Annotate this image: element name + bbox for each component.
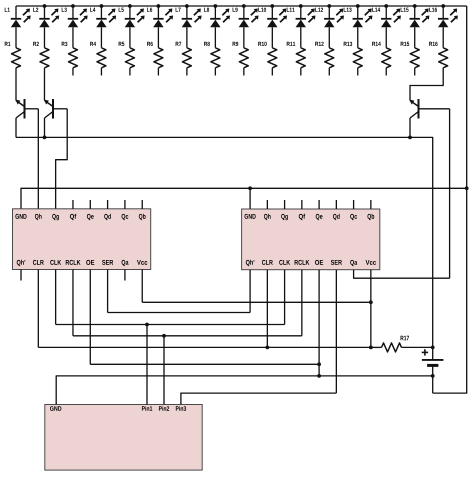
U1 pin label Qh xyxy=(35,214,42,220)
battery BT1 minus plate xyxy=(427,364,438,367)
U2 pin label CLR xyxy=(262,260,273,265)
U2 pin label Qe xyxy=(316,214,323,220)
U1 pin label CLK xyxy=(50,260,61,265)
label R11 xyxy=(287,42,296,46)
wire R10 lower stub xyxy=(271,68,273,76)
label L13 xyxy=(344,8,352,12)
wire: Q2 collector to rail xyxy=(44,118,46,137)
junction L11/rail xyxy=(299,4,303,8)
microcontroller U3 xyxy=(45,405,202,471)
LED L9 xyxy=(239,6,259,48)
junction Q2 collector xyxy=(43,136,47,140)
resistor R5 xyxy=(125,48,134,68)
wire: OE bus xyxy=(90,363,319,365)
U1 top stub Qe xyxy=(89,200,91,209)
wire: right-edge riser (rail to battery minus) xyxy=(433,6,467,393)
resistor R3 xyxy=(68,48,77,68)
U2 top stub Qf xyxy=(301,200,303,209)
wire: U2 Qh' down xyxy=(249,270,251,313)
wire: Pin3 to U2 SER xyxy=(181,393,336,404)
label R13 xyxy=(344,42,352,46)
label R1 xyxy=(5,42,11,46)
wire R14 lower stub xyxy=(385,68,387,76)
wire R9 lower stub xyxy=(243,68,245,76)
wire: U2 CLR down xyxy=(266,270,268,348)
U2 pin label Qh xyxy=(264,214,271,220)
label R17 xyxy=(401,336,409,341)
U3 pin label GND xyxy=(50,406,61,411)
shift register U2 xyxy=(242,209,380,270)
wire: R16 to Q3 emitter xyxy=(410,68,443,101)
wire: R17 right lead xyxy=(402,346,433,348)
junction Vcc bus / U2 Vcc riser xyxy=(369,300,373,304)
junction L14/rail xyxy=(384,4,388,8)
junction U2 GND pin / GND rail xyxy=(248,186,252,190)
junction R17 / battery plus riser xyxy=(431,346,435,350)
label R12 xyxy=(315,42,323,46)
label R7 xyxy=(176,42,182,46)
LED L3 xyxy=(68,6,88,48)
label R5 xyxy=(119,42,125,46)
wire R4 lower stub xyxy=(100,68,102,76)
resistor R4 xyxy=(97,48,106,68)
LED L6 xyxy=(153,6,173,48)
U2 pin label SER xyxy=(331,260,342,265)
wire: top cathode rail xyxy=(16,5,467,7)
LED L7 xyxy=(182,6,202,48)
U1 pin label GND xyxy=(15,214,26,219)
U2 pin label OE xyxy=(315,260,323,265)
LED L10 xyxy=(267,6,287,48)
U1 pin label SER xyxy=(102,260,113,265)
U2 pin label Qg xyxy=(281,214,288,220)
wire R12 lower stub xyxy=(328,68,330,76)
resistor R7 xyxy=(182,48,191,68)
label L9 xyxy=(233,8,238,12)
U1 pin label Qc xyxy=(122,214,129,220)
U2 pin label Qd xyxy=(333,214,340,220)
U1 top stub Qd xyxy=(107,200,109,209)
wire: RCLK bus xyxy=(73,335,302,337)
label R9 xyxy=(233,42,239,46)
junction L2/rail xyxy=(43,4,47,8)
U3 pin label Pin1 xyxy=(142,406,152,411)
U2 top stub Qg xyxy=(284,200,286,209)
LED L2 xyxy=(39,6,59,48)
U2 pin label Qc xyxy=(350,214,357,220)
label L7 xyxy=(176,8,181,12)
junction L8/rail xyxy=(213,4,217,8)
wire: U1 OE down xyxy=(89,270,91,365)
wire R15 lower stub xyxy=(414,68,416,76)
wire: U1 CLK down xyxy=(55,270,57,325)
junction GND bus / battery minus xyxy=(431,374,435,378)
wire: Pin1 riser xyxy=(146,325,148,405)
U1 pin label CLR xyxy=(33,260,44,265)
label L11 xyxy=(287,8,295,12)
junction L5/rail xyxy=(128,4,132,8)
resistor R12 xyxy=(325,48,334,68)
wire: Pin2 riser xyxy=(163,336,165,405)
resistor R13 xyxy=(353,48,362,68)
U2 top stub Qc xyxy=(353,200,355,209)
junction CLK bus / Pin1 xyxy=(145,323,149,327)
wire: collector rail xyxy=(16,137,433,360)
junction L12/rail xyxy=(327,4,331,8)
junction L16/rail xyxy=(441,4,445,8)
wire: GND bus (U3 GND to battery minus) xyxy=(56,376,433,405)
resistor R9 xyxy=(239,48,248,68)
wire: Q1 base to U1 Qh xyxy=(37,109,39,209)
resistor R11 xyxy=(296,48,305,68)
resistor R14 xyxy=(382,48,391,68)
wire: U2 OE down xyxy=(318,270,320,376)
U1 stub Qh' xyxy=(20,270,22,281)
label L10 xyxy=(258,8,266,12)
LED L15 xyxy=(410,6,430,48)
resistor R17 xyxy=(382,343,402,352)
LED L13 xyxy=(353,6,373,48)
U2 pin label CLK xyxy=(279,260,290,265)
LED L14 xyxy=(381,6,401,48)
label L6 xyxy=(147,8,152,12)
battery BT1 plus sign xyxy=(422,351,428,353)
U2 pin label Qa xyxy=(350,260,357,266)
label R8 xyxy=(204,42,210,46)
resistor R2 xyxy=(40,48,49,68)
wire: CLK bus xyxy=(56,324,285,326)
U2 pin label GND xyxy=(245,214,256,219)
label L16 xyxy=(429,8,437,12)
wire: Q1 collector to rail xyxy=(15,118,17,137)
LED L4 xyxy=(96,6,116,48)
wire: GND rail xyxy=(21,188,467,209)
resistor R8 xyxy=(211,48,220,68)
wire: U2 Qa to Q3 base xyxy=(354,270,450,279)
wire R5 lower stub xyxy=(129,68,131,76)
label R3 xyxy=(62,42,68,46)
wire R6 lower stub xyxy=(157,68,159,76)
junction L15/rail xyxy=(413,4,417,8)
resistor R16 xyxy=(439,48,448,68)
resistor R1 xyxy=(12,48,21,68)
wire: Vcc bus xyxy=(142,301,371,303)
U1 pin label OE xyxy=(86,260,94,265)
label R10 xyxy=(258,42,266,46)
wire: CLR bus xyxy=(38,346,371,348)
U1 top stub Qc xyxy=(124,200,126,209)
U1 pin label Qe xyxy=(87,214,94,220)
U1 pin label Qg xyxy=(52,214,59,220)
U3 pin label Pin3 xyxy=(176,406,186,411)
wire R8 lower stub xyxy=(214,68,216,76)
LED L16 xyxy=(438,6,458,48)
wire: U2 CLK down xyxy=(284,270,286,325)
U1 pin label Qd xyxy=(104,214,111,220)
U2 pin label Qf xyxy=(299,214,305,220)
junction L7/rail xyxy=(185,4,189,8)
label L5 xyxy=(119,8,124,12)
label L4 xyxy=(90,8,95,12)
junction GND rail / right riser xyxy=(465,186,469,190)
label R14 xyxy=(372,42,381,46)
U2 top stub Qd xyxy=(335,200,337,209)
wire: Q3 collector to rail xyxy=(409,118,411,137)
resistor R6 xyxy=(154,48,163,68)
transistor Q2 xyxy=(44,99,67,119)
U2 pin label RCLK xyxy=(295,260,310,265)
U1 pin label Qf xyxy=(70,214,76,220)
label L8 xyxy=(204,8,209,12)
junction L3/rail xyxy=(71,4,75,8)
junction CLR bus / U2 CLR xyxy=(265,346,269,350)
label L3 xyxy=(62,8,67,12)
wire: Q3 base riser to U2 Qa line xyxy=(449,109,451,278)
label L2 xyxy=(33,8,38,12)
wire: U2 Vcc riser down xyxy=(370,270,372,348)
wire: Q2 base jog to U1 Qg xyxy=(56,109,68,209)
U2 pin label Vcc xyxy=(366,260,376,265)
wire: R17 left lead xyxy=(371,346,382,348)
U1 pin label Vcc xyxy=(137,260,147,265)
U2 pin label Qb xyxy=(367,214,374,220)
wire R3 lower stub xyxy=(72,68,74,76)
U1 pin label RCLK xyxy=(66,260,81,265)
U1 pin label Qh' xyxy=(17,260,25,266)
junction L9/rail xyxy=(242,4,246,8)
U2 top stub Qe xyxy=(318,200,320,209)
label L12 xyxy=(315,8,323,12)
wire: battery minus to GND bus xyxy=(432,365,434,393)
junction OE bus / U2 OE riser xyxy=(317,362,321,366)
LED L11 xyxy=(296,6,316,48)
U1 pin label Qb xyxy=(139,214,146,220)
wire R7 lower stub xyxy=(186,68,188,76)
U1 pin label Qa xyxy=(122,260,129,266)
junction L6/rail xyxy=(157,4,161,8)
U2 top stub Qb xyxy=(370,200,372,209)
wire: R2 to Q2 emitter xyxy=(43,68,45,101)
wire: U1 Vcc down xyxy=(141,270,143,303)
LED L12 xyxy=(324,6,344,48)
label L14 xyxy=(372,8,380,12)
label L15 xyxy=(401,8,409,12)
wire: U2 SER down xyxy=(335,270,337,393)
wire: U2 RCLK down xyxy=(301,270,303,336)
wire: U1 SER to U2 Qh' bus xyxy=(108,312,251,314)
wire: U1 SER down xyxy=(107,270,109,313)
shift register U1 xyxy=(13,209,151,270)
wire R13 lower stub xyxy=(357,68,359,76)
LED L8 xyxy=(210,6,230,48)
junction GND bus / U2 OE riser xyxy=(317,374,321,378)
wire: U2 GND pin drop xyxy=(249,188,251,209)
junction L4/rail xyxy=(100,4,104,8)
junction L10/rail xyxy=(270,4,274,8)
U2 pin label Qh' xyxy=(246,260,254,266)
U1 top stub Qf xyxy=(72,200,74,209)
LED L1 xyxy=(11,6,31,48)
U1 top stub Qb xyxy=(141,200,143,209)
junction CLR bus / Vcc riser / R17 xyxy=(369,346,373,350)
wire: U1 CLR down xyxy=(37,270,39,348)
junction Q3 collector xyxy=(408,136,412,140)
label R16 xyxy=(429,42,437,46)
label R2 xyxy=(33,42,39,46)
U3 pin label Pin2 xyxy=(159,406,169,411)
resistor R10 xyxy=(268,48,277,68)
junction L13/rail xyxy=(356,4,360,8)
resistor R15 xyxy=(410,48,419,68)
U2 top stub Qh xyxy=(266,200,268,209)
label R4 xyxy=(90,42,96,46)
label R6 xyxy=(147,42,153,46)
LED L5 xyxy=(125,6,145,48)
junction RCLK bus / Pin2 xyxy=(162,334,166,338)
wire R11 lower stub xyxy=(300,68,302,76)
transistor Q3 xyxy=(410,99,450,119)
label L1 xyxy=(5,8,10,12)
U1 stub Qa xyxy=(124,270,126,281)
label R15 xyxy=(401,42,410,46)
transistor Q1 xyxy=(16,99,39,119)
battery BT1 plus plate xyxy=(422,359,444,361)
wire: U1 RCLK down xyxy=(72,270,74,336)
wire: R1 to Q1 emitter xyxy=(15,68,17,101)
